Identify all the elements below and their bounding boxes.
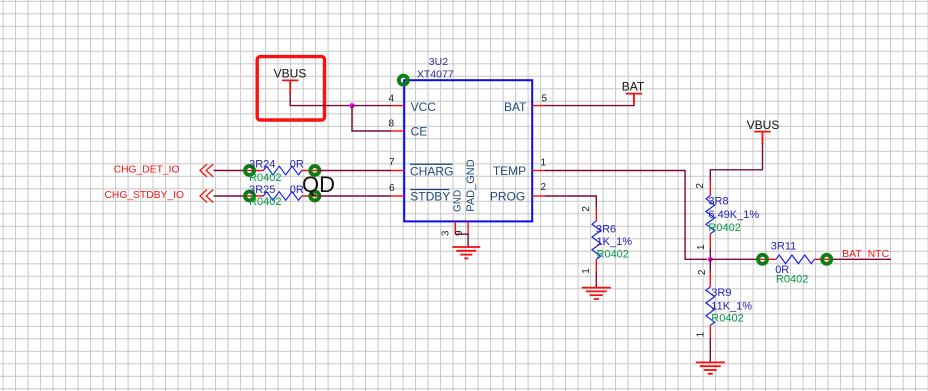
resistor R11 0R [756, 241, 833, 286]
wire port to R24 [214, 170, 246, 172]
svg-text:3R6: 3R6 [596, 223, 616, 235]
wire pin 1 TEMP to node [545, 171, 707, 260]
wire R8 to node [709, 248, 711, 257]
svg-text:7: 7 [389, 157, 395, 168]
wire GND pins joined [455, 234, 468, 247]
svg-text:CE: CE [411, 125, 428, 139]
svg-text:11K_1%: 11K_1% [711, 300, 752, 312]
svg-text:2: 2 [695, 183, 706, 189]
svg-text:PAD_GND: PAD_GND [465, 159, 477, 211]
svg-text:PROG: PROG [490, 189, 525, 203]
junction node TEMP/R8/R9/R11 [708, 257, 713, 262]
wire R9 to ground [709, 338, 711, 362]
resistor R9 11K_1% [696, 269, 753, 338]
junction node at VBUS/VCC/CE [349, 103, 354, 108]
svg-text:6: 6 [389, 183, 395, 194]
svg-text:TEMP: TEMP [493, 164, 526, 178]
port CHG_DET_IO [114, 164, 214, 177]
wire R6 to ground [595, 272, 597, 288]
svg-text:CHARG: CHARG [410, 165, 453, 179]
svg-text:3R9: 3R9 [711, 287, 731, 299]
svg-text:4: 4 [388, 93, 394, 104]
svg-text:1: 1 [541, 158, 547, 169]
svg-text:R0402: R0402 [708, 222, 740, 234]
svg-text:8: 8 [388, 119, 394, 130]
pin 3 GND [441, 190, 464, 236]
power port BAT [622, 80, 645, 105]
wire R25 to pin 6 [319, 195, 391, 197]
svg-text:BAT: BAT [622, 80, 645, 94]
svg-text:R0402: R0402 [711, 313, 743, 325]
svg-text:CHG_STDBY_IO: CHG_STDBY_IO [104, 190, 184, 201]
svg-text:3R8: 3R8 [708, 195, 728, 207]
svg-text:VBUS: VBUS [274, 66, 307, 80]
resistor R25 0R [245, 184, 319, 208]
pin 4 VCC [388, 93, 436, 114]
pin 8 CE [388, 119, 427, 139]
svg-text:VBUS: VBUS [747, 118, 780, 132]
svg-text:R0402: R0402 [597, 248, 629, 260]
wire node down to R9 [709, 259, 711, 271]
svg-text:3U2: 3U2 [429, 56, 448, 68]
svg-text:R0402: R0402 [776, 273, 808, 285]
svg-text:QD: QD [302, 172, 335, 197]
svg-text:0R: 0R [290, 159, 304, 171]
svg-text:5: 5 [542, 93, 548, 104]
ground symbol (R9) [696, 362, 725, 373]
svg-text:1: 1 [696, 244, 707, 250]
wire node to pin 4 [352, 105, 391, 107]
wire node to R11 [710, 258, 756, 260]
wire pin 2 PROG to R6 [545, 196, 596, 207]
pin 2 PROG [490, 182, 547, 203]
resistor R24 0R [245, 159, 319, 185]
svg-text:9: 9 [454, 230, 465, 236]
svg-text:R0402: R0402 [249, 196, 281, 208]
resistor R8 6.49K_1% [695, 180, 760, 250]
svg-text:GND: GND [452, 190, 463, 212]
donut pad at U2 top-left corner [399, 76, 408, 85]
pin 7 CHARG (active low) [389, 157, 453, 179]
pin 9 PAD_GND [454, 159, 477, 236]
wire pin 5 to BAT port [545, 98, 634, 106]
svg-text:STDBY: STDBY [410, 189, 450, 203]
svg-text:1: 1 [581, 268, 592, 274]
svg-text:3R11: 3R11 [771, 241, 796, 253]
ground symbol (U2 GND) [452, 247, 480, 258]
svg-text:3R25: 3R25 [249, 184, 275, 196]
svg-text:2: 2 [581, 206, 592, 212]
wire VBUS-left down and to node [290, 94, 352, 106]
svg-text:2: 2 [697, 269, 708, 275]
svg-text:3R24: 3R24 [249, 159, 275, 171]
pin 5 BAT [504, 93, 548, 113]
svg-text:1K_1%: 1K_1% [597, 236, 633, 248]
highlight box around VBUS port [257, 57, 324, 120]
IC U2 XT4077 body [404, 56, 532, 222]
pin 1 TEMP [493, 158, 547, 179]
resistor R6 1K_1% [581, 206, 632, 274]
wire VBUS-right to R8 [710, 143, 762, 180]
svg-text:R0402: R0402 [249, 172, 281, 184]
wire port to R25 [214, 195, 246, 197]
svg-text:2: 2 [541, 182, 547, 193]
port CHG_STDBY_IO [104, 190, 213, 203]
wire node down to pin 8 [352, 106, 391, 131]
svg-text:BAT_NTC: BAT_NTC [842, 248, 889, 260]
svg-text:BAT: BAT [504, 100, 527, 114]
svg-text:1: 1 [696, 331, 707, 337]
svg-text:6.49K_1%: 6.49K_1% [708, 209, 759, 221]
svg-text:CHG_DET_IO: CHG_DET_IO [114, 164, 180, 175]
wire R24 to pin 7 [319, 170, 391, 172]
pin 6 STDBY (active low) [389, 183, 450, 203]
svg-text:XT4077: XT4077 [417, 69, 454, 81]
svg-text:3: 3 [441, 230, 452, 236]
ground symbol (R6) [582, 288, 611, 299]
power port VBUS (left) [274, 66, 307, 94]
wire R11 to BAT_NTC [833, 258, 891, 260]
power port VBUS (right) [747, 118, 780, 144]
svg-text:VCC: VCC [411, 100, 437, 114]
